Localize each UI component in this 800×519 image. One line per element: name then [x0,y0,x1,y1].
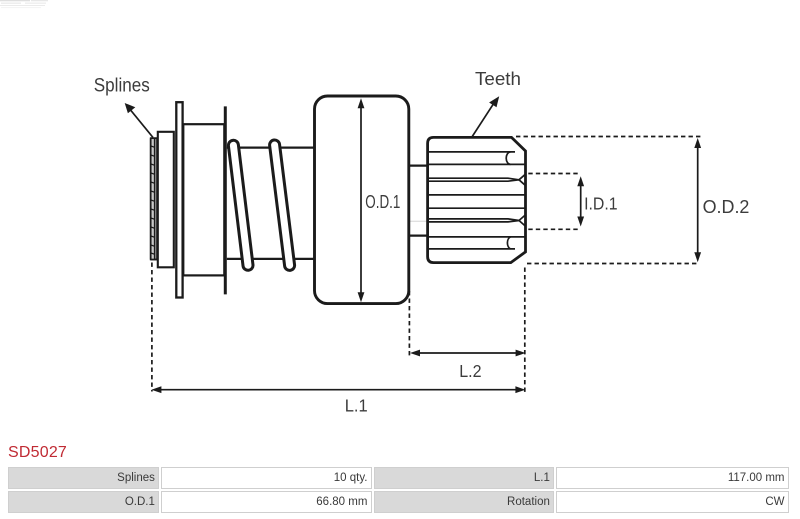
shaft between clutch and gear [410,165,427,167]
I.D.1 top extension [528,173,580,175]
O.D.2 bottom extension [527,263,699,265]
L.2 dimension arrow [415,352,520,354]
Teeth pointer arrow [472,101,496,138]
I.D.1 bottom extension [528,228,580,230]
svg-text:Teeth: Teeth [475,68,521,89]
flange disc 1 [176,102,182,297]
top-left faint scan smudge [0,0,48,8]
svg-text:L.2: L.2 [459,361,481,381]
L.2 left extension [408,291,410,357]
Splines pointer arrow [129,108,154,138]
svg-text:O.D.2: O.D.2 [703,197,750,217]
O.D.2 arrow [697,145,699,256]
part number [8,444,67,462]
svg-text:L.1: L.1 [345,396,368,416]
spring coil capsule 1 [233,145,248,265]
gear outline [428,137,526,262]
spline sleeve [151,138,157,259]
clutch housing [315,96,409,304]
L.1 dimension arrow [157,389,520,391]
data table [6,465,791,515]
spring barrel [227,147,314,149]
faint centerline near gear [382,220,445,222]
dashed extension lines [152,137,701,393]
L.1/L.2 right extension [524,268,526,393]
flange disc 2 (thick line) [224,106,227,294]
drum between discs [183,124,224,275]
L.1 left extension [151,263,153,392]
svg-text:I.D.1: I.D.1 [584,193,618,213]
O.D.1 arrow [360,105,362,294]
collar [158,132,174,267]
gear teeth lines [428,152,526,249]
spline hatch ticks [151,146,155,254]
svg-text:O.D.1: O.D.1 [365,192,400,212]
svg-text:Splines: Splines [94,76,150,97]
spring coil capsule 2 [275,145,290,265]
I.D.1 arrow [580,183,582,221]
O.D.2 top extension [516,136,701,138]
